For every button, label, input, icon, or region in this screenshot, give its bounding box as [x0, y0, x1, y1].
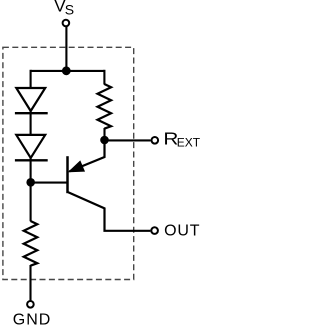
transistor Q1 emitter wire: [69, 140, 104, 171]
node junction emitter: [100, 136, 109, 145]
wire left drop to diode: [30, 70, 32, 89]
wire between diodes: [30, 110, 32, 136]
wire VS vertical: [65, 27, 67, 71]
resistor R2 (lower): [24, 221, 38, 266]
svg-text:OUT: OUT: [164, 223, 200, 240]
dashed enclosure box: [3, 47, 134, 279]
svg-text:EXT: EXT: [177, 136, 200, 150]
transistor Q1 emitter arrow: [69, 161, 84, 172]
wire REXT: [105, 139, 151, 141]
svg-text:S: S: [65, 1, 74, 17]
diode D2: [15, 135, 48, 160]
wire diode chain down to resistor: [30, 157, 32, 221]
wire resistor to GND terminal: [29, 265, 31, 301]
resistor R1 (upper): [98, 84, 112, 129]
terminal OUT: [151, 227, 158, 234]
terminal VS: [63, 20, 70, 27]
label VS: [54, 0, 74, 17]
terminal GND: [27, 301, 34, 308]
wire base: [31, 182, 67, 184]
transistor Q1 collector wire: [68, 192, 150, 231]
wire resistor to node E: [103, 128, 105, 140]
wire right drop from bus: [103, 70, 105, 85]
svg-text:GND: GND: [13, 312, 52, 328]
wire top bus: [31, 70, 105, 72]
terminal REXT: [152, 137, 159, 144]
node junction top: [62, 66, 71, 75]
diode D1: [15, 88, 48, 113]
transistor Q1 base bar: [66, 156, 69, 193]
node junction base: [26, 178, 35, 187]
label REXT: [163, 129, 200, 150]
